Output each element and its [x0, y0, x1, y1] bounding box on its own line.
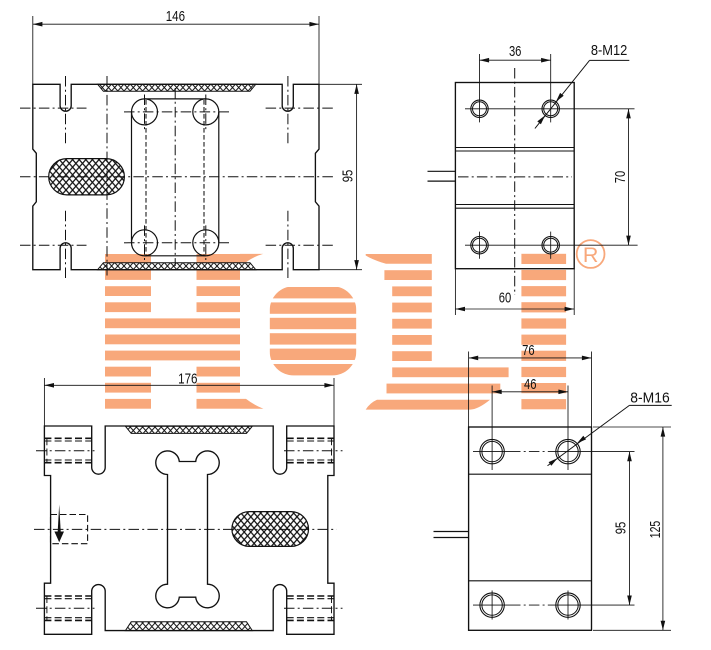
svg-text:8-M12: 8-M12: [591, 43, 628, 59]
svg-text:70: 70: [613, 171, 629, 184]
svg-text:46: 46: [524, 377, 537, 393]
svg-text:95: 95: [340, 170, 356, 183]
svg-text:R: R: [583, 243, 599, 267]
svg-text:125: 125: [648, 521, 664, 539]
svg-text:146: 146: [166, 9, 185, 25]
svg-text:76: 76: [522, 343, 535, 359]
svg-text:60: 60: [499, 291, 512, 307]
svg-text:176: 176: [178, 372, 197, 388]
svg-text:95: 95: [613, 522, 629, 535]
svg-text:8-M16: 8-M16: [630, 391, 669, 407]
svg-text:36: 36: [509, 44, 522, 60]
